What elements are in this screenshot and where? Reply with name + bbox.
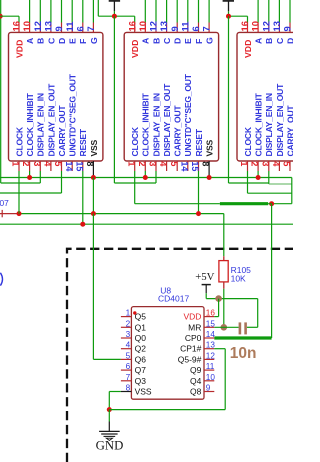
node U7 pin2 junction	[256, 175, 261, 180]
pin stub right 14 U8	[204, 337, 214, 339]
pin stub top 9 U6	[176, 23, 178, 33]
svg-text:UNGTD"C"SEG_OUT: UNGTD"C"SEG_OUT	[68, 73, 78, 156]
svg-text:12: 12	[206, 351, 216, 360]
pin stub top 13 U7	[278, 23, 280, 33]
wire segment output B IC5 to top edge	[39, 0, 41, 23]
svg-text:DISPLAY_EN_IN: DISPLAY_EN_IN	[36, 93, 46, 156]
svg-text:G: G	[205, 37, 215, 44]
svg-text:2: 2	[250, 161, 260, 166]
ground symbol	[108, 410, 110, 422]
svg-text:7: 7	[201, 26, 212, 31]
wire U5 pin15 reset down	[82, 171, 84, 224]
wire U5 pin5 carry down	[61, 171, 63, 193]
svg-text:14: 14	[64, 161, 74, 171]
pin stub bottom 2 U5	[29, 161, 31, 171]
svg-text:B: B	[36, 38, 46, 44]
label parenthesis fragment	[0, 273, 2, 286]
wire segment output D IC6 to top edge	[176, 0, 178, 23]
wire segment output E IC5 to top edge	[71, 0, 73, 23]
svg-text:RESET: RESET	[78, 128, 88, 156]
wire segment output A IC6 to top edge	[144, 0, 146, 23]
svg-text:+5V: +5V	[195, 271, 214, 283]
svg-text:12: 12	[148, 21, 159, 31]
pin stub right 15 U8	[204, 326, 214, 328]
svg-text:CLOCK: CLOCK	[14, 126, 24, 156]
wire clock rail F highlighted segment	[220, 202, 268, 205]
svg-text:4: 4	[43, 161, 53, 166]
wire segment output A IC7 to top edge	[257, 0, 259, 23]
node T2 junction	[226, 14, 231, 19]
pin stub left 1 U8	[121, 316, 131, 318]
svg-text:9: 9	[206, 384, 211, 393]
pin stub right 11 U8	[204, 369, 214, 371]
svg-text:15: 15	[206, 319, 216, 328]
wire T2 down to pin3 feed U7	[228, 16, 230, 183]
svg-text:A: A	[141, 37, 151, 44]
pin stub bottom 14 U5	[71, 161, 73, 171]
svg-text:Q3: Q3	[135, 376, 147, 386]
wire ground rail right	[109, 409, 225, 411]
wire CP0 highlighted	[214, 336, 271, 339]
pin stub top 16 U6	[134, 23, 136, 33]
svg-text:CLOCK_INHIBIT: CLOCK_INHIBIT	[141, 92, 151, 156]
svg-text:CLOCK_INHIBIT: CLOCK_INHIBIT	[25, 92, 35, 156]
pin stub bottom 1 U5	[18, 161, 20, 171]
resistor R107 lead from left	[0, 213, 19, 215]
svg-text:5: 5	[53, 161, 63, 166]
svg-text:10: 10	[250, 21, 261, 31]
svg-text:14: 14	[206, 330, 216, 339]
svg-text:16: 16	[126, 21, 137, 31]
svg-text:D: D	[173, 38, 183, 44]
node U5 pin8 junction	[91, 175, 96, 180]
node +5V junction	[215, 295, 222, 302]
wire U8 VSS to ground	[109, 391, 121, 393]
pin stub top 7 U5	[92, 23, 94, 33]
dashed block boundary	[67, 249, 293, 462]
svg-text:9: 9	[282, 26, 293, 31]
node rail-F junction	[269, 201, 274, 206]
pin stub bottom 5 U7	[289, 161, 291, 171]
resistor R105 bottom lead	[223, 282, 225, 289]
wire segment output C IC6 to top edge	[166, 0, 168, 23]
wire VDD drop	[218, 299, 220, 317]
svg-text:5: 5	[126, 351, 131, 360]
counter IC U7 body	[237, 32, 320, 161]
svg-text:11: 11	[206, 362, 215, 371]
pin stub left 4 U8	[121, 348, 131, 350]
pin stub right 12 U8	[204, 358, 214, 360]
svg-text:1: 1	[239, 161, 249, 166]
wire rail E	[0, 223, 293, 225]
pin stub top 9 U7	[289, 23, 291, 33]
svg-text:VSS: VSS	[205, 140, 215, 157]
svg-text:3: 3	[32, 161, 42, 166]
pin stub bottom 2 U6	[144, 161, 146, 171]
svg-text:CARRY_OUT: CARRY_OUT	[285, 105, 293, 157]
svg-text:C: C	[46, 37, 56, 44]
svg-text:MR: MR	[188, 322, 201, 332]
svg-text:DISPLAY_EN_IN: DISPLAY_EN_IN	[151, 93, 161, 156]
wire segment output G IC6 to top edge	[208, 0, 210, 23]
svg-text:12: 12	[260, 21, 271, 31]
svg-text:F: F	[194, 39, 204, 44]
pin stub top 6 U5	[82, 23, 84, 33]
pin stub top 13 U5	[50, 23, 52, 33]
svg-text:7: 7	[85, 26, 96, 31]
svg-text:11: 11	[64, 22, 75, 32]
svg-text:VDD: VDD	[130, 40, 140, 58]
svg-text:VSS: VSS	[89, 140, 99, 157]
svg-text:10: 10	[206, 373, 216, 382]
pin stub left 6 U8	[121, 369, 131, 371]
svg-text:Q7: Q7	[135, 365, 147, 375]
svg-text:E: E	[183, 38, 193, 44]
svg-text:5: 5	[282, 161, 292, 166]
node ground junction	[107, 407, 112, 412]
svg-text:B: B	[264, 38, 274, 44]
pin stub top 10 U7	[257, 23, 259, 33]
resistor R105 top lead	[223, 256, 225, 260]
pin stub right 9 U8	[204, 391, 214, 393]
pin stub left 7 U8	[121, 380, 131, 382]
wire segment output C IC7 to top edge	[278, 0, 280, 23]
svg-text:4: 4	[271, 161, 281, 166]
wire segment output B IC7 to top edge	[268, 0, 270, 23]
svg-text:C: C	[162, 37, 172, 44]
node U6 pin15 junction	[196, 211, 201, 216]
svg-text:14: 14	[179, 161, 189, 171]
svg-text:UNGTD"C"SEG_OUT: UNGTD"C"SEG_OUT	[183, 73, 193, 156]
svg-text:8: 8	[126, 384, 131, 393]
svg-text:E: E	[68, 38, 78, 44]
wire VSS chain down to Q6 net	[92, 178, 94, 214]
svg-text:16: 16	[11, 21, 22, 31]
svg-text:CLOCK: CLOCK	[243, 126, 253, 156]
node U5 pin15 junction	[80, 222, 85, 227]
wire U5 pin3 down	[39, 171, 41, 183]
svg-text:1: 1	[126, 309, 131, 318]
svg-text:CLOCK_INHIBIT: CLOCK_INHIBIT	[254, 92, 264, 156]
wire Q6 net vertical to CD4017 pin5	[92, 214, 94, 360]
wire U5 pin1 clock down	[18, 171, 20, 214]
svg-text:VSS: VSS	[135, 387, 152, 397]
svg-text:DISPLAY_EN_OUT: DISPLAY_EN_OUT	[46, 83, 56, 157]
pin stub top 16 U7	[247, 23, 249, 33]
svg-text:1: 1	[11, 161, 21, 166]
wire +V bus T2 to U7 VDD	[229, 15, 248, 17]
wire pin3 feed U6	[114, 182, 156, 184]
svg-text:9: 9	[53, 26, 64, 31]
wire pin3 feed U5	[1, 182, 41, 184]
wire segment output F IC5 to top edge	[82, 0, 84, 23]
svg-text:F: F	[78, 39, 88, 44]
svg-text:13: 13	[206, 341, 216, 350]
wire U7 pin3 down	[268, 171, 270, 183]
pin stub top 6 U6	[198, 23, 200, 33]
svg-text:10: 10	[137, 21, 148, 31]
svg-text:7: 7	[126, 373, 131, 382]
svg-text:3: 3	[126, 330, 131, 339]
svg-text:Q2: Q2	[135, 344, 147, 354]
svg-text:CD4017: CD4017	[158, 293, 189, 303]
svg-text:DISPLAY_EN_OUT: DISPLAY_EN_OUT	[162, 83, 172, 157]
svg-text:Q4: Q4	[190, 376, 202, 386]
pin stub left 8 U8	[121, 391, 131, 393]
wire MR to cap	[214, 326, 238, 328]
capacitor C 10n left plate	[239, 322, 242, 334]
svg-text:Q6: Q6	[135, 354, 147, 364]
wire T1 down to pin3 feed U6	[113, 16, 115, 183]
svg-text:G: G	[89, 37, 99, 44]
svg-text:13: 13	[158, 21, 169, 31]
pin stub bottom 3 U7	[268, 161, 270, 171]
svg-text:Q9: Q9	[190, 365, 202, 375]
pin stub top 16 U5	[18, 23, 20, 33]
svg-text:4: 4	[158, 161, 168, 166]
node U6 pin8 junction	[207, 175, 212, 180]
wire U6 pin15 reset down	[198, 171, 200, 214]
pin stub bottom 15 U6	[198, 161, 200, 171]
svg-text:5: 5	[169, 161, 179, 166]
pin stub left 2 U8	[121, 326, 131, 328]
svg-text:11: 11	[179, 22, 190, 32]
node U6 pin2 junction	[143, 175, 148, 180]
svg-text:6: 6	[190, 26, 201, 31]
wire cap right loop	[257, 299, 259, 328]
wire segment output E IC6 to top edge	[187, 0, 189, 23]
svg-text:D: D	[57, 38, 67, 44]
wire left-edge vertical to pin 3 of U5	[0, 0, 2, 183]
wire segment output D IC5 to top edge	[61, 0, 63, 23]
svg-text:6: 6	[74, 26, 85, 31]
svg-text:3: 3	[260, 161, 270, 166]
svg-text:12: 12	[32, 21, 43, 31]
svg-text:6: 6	[126, 362, 131, 371]
svg-text:8: 8	[201, 161, 211, 166]
resistor R105 body	[219, 261, 228, 282]
node clock junction R107/pin1	[17, 211, 22, 216]
svg-text:CARRY_OUT: CARRY_OUT	[57, 105, 67, 157]
svg-text:DISPLAY_EN_OUT: DISPLAY_EN_OUT	[275, 83, 285, 157]
counter IC U5 body	[9, 32, 103, 161]
svg-text:Q0: Q0	[135, 333, 147, 343]
svg-text:10n: 10n	[230, 345, 257, 362]
pin stub bottom 14 U6	[187, 161, 189, 171]
wire +V bus T1 to U6 VDD	[98, 15, 134, 17]
svg-text:2: 2	[137, 161, 147, 166]
svg-text:2: 2	[126, 319, 131, 328]
pin stub bottom 4 U7	[278, 161, 280, 171]
svg-text:10K: 10K	[231, 274, 246, 284]
node U5 pin2 junction	[27, 175, 32, 180]
svg-text:15: 15	[74, 161, 84, 171]
wire segment output A IC5 to top edge	[29, 0, 31, 23]
pin stub top 12 U6	[155, 23, 157, 33]
svg-text:07: 07	[0, 198, 9, 208]
wire rail A (clock-inhibit/VSS)	[0, 177, 292, 179]
wire segment output D IC7 to top edge	[289, 0, 291, 23]
pin stub left 3 U8	[121, 337, 131, 339]
wire U5 pin8 VSS down	[92, 171, 94, 178]
svg-text:9: 9	[169, 26, 180, 31]
wire carry U7 pin1	[248, 192, 292, 194]
svg-text:16: 16	[239, 21, 250, 31]
pin stub bottom 8 U5	[92, 161, 94, 171]
svg-text:CLOCK: CLOCK	[130, 126, 140, 156]
svg-text:RESET: RESET	[194, 128, 204, 156]
svg-text:A: A	[25, 37, 35, 44]
svg-text:Q5-9#: Q5-9#	[178, 354, 202, 364]
pin stub bottom 3 U5	[39, 161, 41, 171]
op-amp U8 CD4017 body	[131, 307, 204, 400]
counter IC U6 body	[124, 32, 218, 161]
power +V symbol T1	[109, 0, 120, 2]
pin1 marker dot U8	[133, 311, 136, 314]
wire U7 pin2 down	[257, 171, 259, 178]
wire U7 pin1 clock down	[247, 171, 249, 193]
svg-text:D: D	[285, 38, 293, 44]
pin stub bottom 1 U6	[134, 161, 136, 171]
wire segment output C IC5 to top edge	[50, 0, 52, 23]
svg-text:CP0: CP0	[185, 333, 202, 343]
svg-text:3: 3	[148, 161, 158, 166]
pin stub top 12 U7	[268, 23, 270, 33]
svg-text:16: 16	[206, 309, 216, 318]
node VDD junction left edge	[0, 14, 3, 19]
wire clock rail F	[135, 203, 220, 205]
pin stub right 10 U8	[204, 380, 214, 382]
svg-text:GND: GND	[96, 439, 124, 453]
pin stub left 5 U8	[121, 358, 131, 360]
wire +5V to VDD node	[206, 298, 258, 300]
svg-text:13: 13	[43, 21, 54, 31]
wire R105 to MR node	[223, 289, 225, 328]
wire U6 pin3 down	[155, 171, 157, 183]
pin stub right 13 U8	[204, 348, 214, 350]
wire segment output F IC6 to top edge	[198, 0, 200, 23]
wire clock rail F to junction	[268, 203, 272, 205]
node T1 junction	[112, 14, 117, 19]
wire U5 pin2 down	[29, 171, 31, 178]
wire down-feed at x=98 to +V bus	[97, 0, 99, 16]
pin stub right 16 U8	[204, 316, 214, 318]
pin stub top 7 U6	[208, 23, 210, 33]
pin stub bottom 3 U6	[155, 161, 157, 171]
wire clock to CP0 vertical	[271, 204, 273, 338]
svg-text:15: 15	[190, 161, 200, 171]
pin stub bottom 8 U6	[208, 161, 210, 171]
svg-text:Q8: Q8	[190, 387, 202, 397]
svg-text:CARRY_OUT: CARRY_OUT	[173, 105, 183, 157]
svg-text:Q5: Q5	[135, 312, 147, 322]
wire rail A corner down	[291, 178, 293, 204]
svg-text:A: A	[254, 37, 264, 44]
node MR junction	[221, 324, 228, 331]
pin stub bottom 5 U5	[61, 161, 63, 171]
pin stub bottom 15 U5	[82, 161, 84, 171]
wire CP1# ground loop	[224, 349, 226, 410]
wire rail D corner down to R105	[223, 214, 225, 257]
power +5V symbol	[202, 284, 211, 286]
pin stub bottom 5 U6	[176, 161, 178, 171]
pin stub top 13 U6	[166, 23, 168, 33]
svg-text:10: 10	[21, 21, 32, 31]
pin stub bottom 1 U7	[247, 161, 249, 171]
svg-text:VDD: VDD	[243, 40, 253, 58]
svg-text:B: B	[151, 38, 161, 44]
svg-text:4: 4	[126, 341, 131, 350]
wire carry rail from U5 pin5 to left edge	[0, 192, 62, 194]
pin stub bottom 2 U7	[257, 161, 259, 171]
svg-text:DISPLAY_EN_IN: DISPLAY_EN_IN	[264, 93, 274, 156]
svg-text:CP1#: CP1#	[180, 344, 202, 354]
wire rail D	[19, 213, 224, 215]
svg-text:C: C	[275, 37, 285, 44]
wire segment output G IC5 to top edge	[92, 0, 94, 23]
pin stub top 9 U5	[61, 23, 63, 33]
svg-text:13: 13	[271, 21, 282, 31]
pin stub top 11 U5	[71, 23, 73, 33]
pin stub bottom 4 U5	[50, 161, 52, 171]
wire U6 pin1 clock down to rail F	[134, 171, 136, 204]
wire VDD feed U5	[0, 15, 19, 17]
wire segment output B IC6 to top edge	[155, 0, 157, 23]
pin stub top 12 U5	[39, 23, 41, 33]
wire U6 pin8 VSS down	[208, 171, 210, 178]
svg-text:VDD: VDD	[14, 40, 24, 58]
wire U6 pin2 down	[144, 171, 146, 178]
wire pin3 feed U7	[229, 182, 269, 184]
svg-text:8: 8	[85, 161, 95, 166]
svg-text:Q1: Q1	[135, 322, 147, 332]
pin stub top 10 U5	[29, 23, 31, 33]
svg-text:VDD: VDD	[183, 312, 201, 322]
capacitor C 10n right plate	[244, 322, 247, 334]
power +V symbol T2	[223, 0, 234, 2]
svg-text:1: 1	[126, 161, 136, 166]
node VSS chain rail-D junction	[91, 211, 96, 216]
pin stub top 11 U6	[187, 23, 189, 33]
pin stub bottom 4 U6	[166, 161, 168, 171]
svg-text:2: 2	[21, 161, 31, 166]
pin stub top 10 U6	[144, 23, 146, 33]
